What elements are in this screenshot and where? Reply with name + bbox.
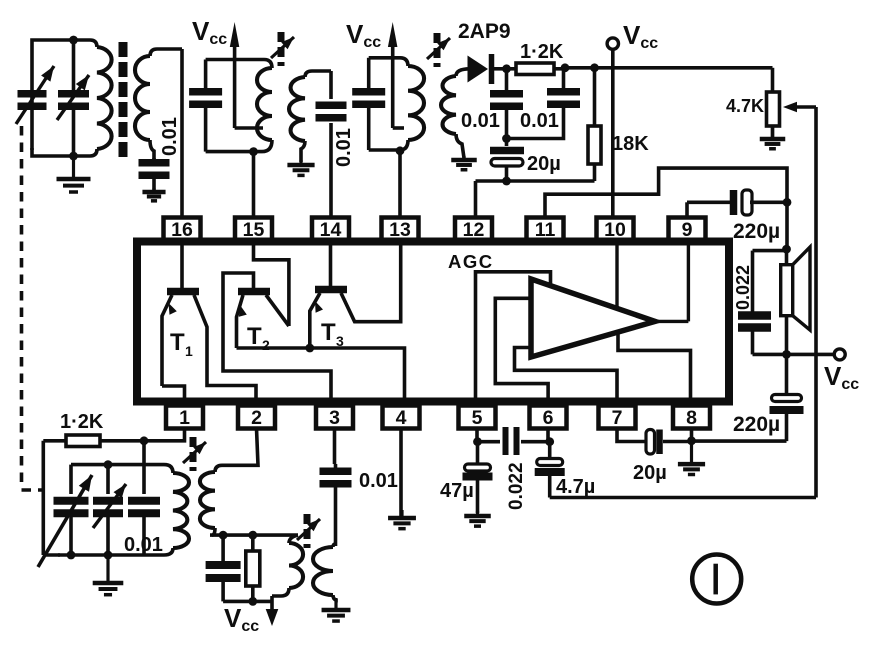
label 0.022 speaker: [733, 265, 753, 310]
node res branch: [248, 531, 257, 540]
wire rail right: [595, 66, 773, 70]
wire pin9 up: [687, 202, 730, 217]
label Vcc (pin15): [192, 16, 227, 48]
Vcc feed arrow (pin15): [230, 22, 240, 128]
variable capacitor C1a: [18, 90, 47, 110]
wire vcc arrow (osc): [266, 596, 279, 626]
pin 3: [316, 406, 353, 430]
label 1.2K osc: [60, 411, 104, 433]
node emitters: [305, 344, 314, 353]
wire cap to pin 14: [329, 123, 333, 218]
svg-text:0.01: 0.01: [124, 534, 163, 556]
core adjust (osc sec): [297, 514, 320, 548]
node 18K top: [590, 63, 599, 72]
capacitor 4.7u: [535, 442, 565, 498]
svg-text:T: T: [321, 319, 336, 346]
svg-text:20µ: 20µ: [633, 462, 667, 484]
wire pin7 down: [617, 429, 646, 442]
coil L6 detector: [441, 76, 464, 158]
wire to pin 13: [398, 151, 402, 218]
wire pin14 to T3: [329, 242, 333, 287]
wire T1 emitter to pin1: [162, 386, 185, 402]
wire tap (pin15): [235, 126, 263, 130]
node osc bot left: [67, 551, 76, 560]
arrow C2b: [93, 484, 126, 528]
node cap branch: [219, 531, 228, 540]
svg-text:2: 2: [262, 337, 270, 353]
svg-text:13: 13: [389, 219, 411, 241]
svg-text:T: T: [247, 323, 262, 350]
node tank15: [249, 147, 258, 156]
label 0.01 osc: [124, 534, 163, 556]
wire pin1 down: [144, 429, 185, 441]
wire C2b branch: [106, 465, 110, 555]
wire to speaker: [785, 202, 789, 249]
ground L7: [322, 598, 351, 621]
pin 7: [599, 406, 636, 430]
wire pin6 input: [495, 298, 548, 401]
svg-text:1: 1: [179, 407, 190, 429]
label 47u: [440, 480, 474, 502]
label 0.01 det A: [461, 110, 500, 132]
wire tank15 top: [206, 60, 272, 69]
core adjust (IF1): [271, 32, 294, 66]
svg-text:8: 8: [686, 407, 697, 429]
svg-text:T: T: [170, 329, 185, 356]
variable capacitor C2a: [54, 497, 89, 518]
wire 0.01 osc branch: [142, 441, 146, 555]
node detector out: [502, 64, 511, 73]
resistor R4 (pin2): [246, 535, 260, 601]
wire wiper to 4.7u: [550, 107, 816, 498]
coil L1 antenna primary: [32, 47, 112, 156]
wire L2 to pin16: [180, 49, 184, 218]
label Vcc osc: [224, 603, 259, 635]
wire pin11 step: [545, 168, 787, 217]
ground pin8: [678, 441, 705, 474]
node R1 right: [561, 63, 570, 72]
variable capacitor C2b: [93, 497, 123, 518]
node pin5: [473, 437, 482, 446]
speaker LS: [781, 247, 810, 354]
wire T2 base to pin3: [223, 273, 331, 402]
label 0.01 det B: [520, 110, 559, 132]
wire osc tank top: [71, 465, 173, 473]
node speaker bottom: [782, 350, 791, 359]
wire speaker top: [753, 251, 787, 312]
svg-text:10: 10: [604, 219, 626, 241]
label Vcc (top): [623, 20, 658, 52]
capacitor 47u: [463, 442, 493, 513]
svg-text:15: 15: [243, 219, 265, 241]
svg-text:0.01: 0.01: [359, 470, 398, 492]
Vcc feed arrow (pin13): [388, 22, 398, 128]
pot wiper arrow: [783, 102, 816, 112]
label 2AP9: [458, 20, 511, 43]
svg-text:11: 11: [535, 219, 556, 241]
svg-text:0.01: 0.01: [333, 128, 355, 167]
pin 5: [459, 406, 496, 430]
label 1.2K (det): [520, 41, 564, 63]
pin 14: [312, 218, 349, 242]
wire pin2 down: [222, 429, 258, 466]
wire C1b branch: [72, 40, 76, 156]
svg-text:4: 4: [396, 407, 407, 429]
coil L7 (pin3): [313, 547, 336, 600]
wire pin7 feedback: [515, 348, 618, 402]
capacitor 0.01 (L2): [139, 158, 170, 190]
label 18K: [612, 133, 649, 155]
svg-text:0.022: 0.022: [733, 265, 753, 310]
capacitor 220u top: [730, 190, 787, 215]
coil L3 IF1 primary: [206, 68, 272, 152]
wire osc mid line: [210, 533, 298, 537]
wire Vcc to pin 10: [611, 49, 615, 217]
node tank bottom: [69, 152, 78, 161]
wire L2 top lead: [150, 49, 182, 56]
svg-text:47µ: 47µ: [440, 480, 474, 502]
pin 13: [382, 218, 419, 242]
IC body (16-pin): [137, 242, 729, 402]
wire L6 top lead: [456, 69, 470, 76]
pin 12: [455, 218, 492, 242]
svg-text:18K: 18K: [612, 133, 649, 155]
svg-text:AGC: AGC: [448, 251, 494, 272]
svg-text:0.022: 0.022: [506, 462, 527, 510]
node osc top mid: [104, 460, 113, 469]
node AGC line: [502, 177, 511, 186]
resistor R3 4.7K: [767, 92, 780, 140]
wire L7 top lead: [333, 544, 336, 547]
wire tap (pin13): [393, 126, 404, 130]
svg-text:0.01: 0.01: [461, 110, 500, 132]
terminal Vcc top: [607, 38, 618, 49]
svg-text:4.7K: 4.7K: [726, 96, 764, 116]
ground L6: [451, 156, 477, 170]
wire to pin 15: [252, 152, 256, 218]
arrow C1b: [57, 75, 89, 120]
op-amp U1: [531, 279, 655, 357]
label T2: [247, 323, 270, 353]
svg-text:2: 2: [251, 407, 262, 429]
wire pin15 to T2 collector: [254, 242, 289, 327]
capacitor osc (pin2): [206, 535, 241, 601]
label T3: [321, 319, 344, 349]
wire pin3 down: [333, 429, 337, 465]
node pin1 junction: [140, 436, 149, 445]
arrow C1a: [16, 66, 54, 124]
svg-text:4.7µ: 4.7µ: [556, 476, 595, 498]
capacitor 0.022 speaker: [738, 311, 771, 354]
node tank13: [396, 146, 405, 155]
capacitor C5 (tank13): [352, 88, 385, 108]
capacitor 0.01 pin3: [320, 464, 352, 546]
wire amp tap to pin8: [618, 334, 691, 402]
pin 4: [383, 406, 420, 430]
svg-text:3: 3: [329, 407, 340, 429]
ground 4.7K: [760, 127, 786, 149]
pin 1: [166, 406, 203, 430]
pin 9: [669, 218, 706, 242]
label 4.7K: [726, 96, 764, 116]
capacitor C3 (tank15): [189, 88, 222, 108]
svg-text:0.01: 0.01: [159, 117, 181, 156]
coil L10 osc tank: [58, 473, 189, 555]
wire AGC to pin5: [476, 272, 551, 402]
svg-text:7: 7: [612, 407, 623, 429]
svg-text:3: 3: [336, 333, 344, 349]
label 220u bottom: [733, 413, 780, 436]
resistor R1 1.2K: [507, 63, 566, 75]
capacitor 220u bottom: [770, 354, 804, 441]
label T1: [170, 329, 193, 359]
resistor R2 18K: [588, 68, 601, 181]
wire pin10 to amp: [615, 242, 618, 308]
pin 15: [235, 218, 272, 242]
svg-text:1·2K: 1·2K: [60, 411, 104, 433]
pin 11: [527, 218, 564, 242]
svg-text:1·2K: 1·2K: [520, 41, 564, 63]
capacitor 0.01 det A: [490, 69, 523, 146]
label Vcc (pin13): [346, 19, 381, 51]
label AGC: [448, 251, 494, 272]
ground L4: [287, 160, 314, 175]
wire antenna tank top/left: [32, 40, 97, 150]
transistor T1: [162, 288, 256, 402]
diode D1 2AP9: [468, 54, 507, 84]
terminal Vcc right: [834, 349, 845, 360]
wire pin5 down: [475, 429, 479, 442]
node tank top: [69, 36, 78, 45]
pin 8: [673, 406, 710, 430]
wire tank15 left branch: [204, 60, 208, 152]
figure number 1: [692, 555, 741, 604]
transistor T2: [237, 288, 289, 348]
pin 16: [164, 218, 201, 242]
ground pin4: [388, 510, 416, 529]
wire rail to 18K: [565, 66, 595, 70]
wire det B to junction: [507, 104, 564, 139]
wire speaker bottom: [753, 353, 835, 357]
wire pin16 to T1: [180, 242, 184, 289]
label 0.01 (L2): [159, 117, 181, 156]
coil L4 IF1 secondary: [289, 77, 305, 162]
ferrite rod (dashed): [119, 42, 128, 157]
svg-text:20µ: 20µ: [527, 153, 561, 175]
svg-text:6: 6: [543, 407, 554, 429]
capacitor 0.022 (5-6): [478, 427, 550, 455]
core adjust (osc): [183, 437, 206, 471]
wire L9 top lead: [289, 535, 298, 543]
capacitor 20u pin7: [646, 430, 692, 455]
ground osc tank: [93, 555, 124, 595]
label 20u pin7: [633, 462, 667, 484]
label 220u top: [733, 220, 780, 243]
resistor R5 1.2K osc: [43, 435, 144, 447]
capacitor 20u det: [490, 147, 524, 181]
ground antenna tank: [57, 156, 91, 192]
arrow C2a: [38, 475, 92, 567]
coil L9 (osc prim): [272, 543, 303, 596]
label Vcc right: [824, 361, 859, 393]
wire osc left: [43, 441, 60, 555]
svg-text:2AP9: 2AP9: [458, 20, 511, 43]
wire AGC line: [476, 181, 595, 218]
coil L5 IF2: [369, 66, 424, 150]
transistor T3: [310, 242, 401, 349]
ground L2: [142, 188, 165, 201]
capacitor 0.01 (pin14): [316, 102, 347, 122]
ground 47u: [464, 511, 491, 526]
wire L8 top lead: [215, 465, 222, 472]
coil L8 (pin2): [200, 472, 215, 535]
label 0.01 (pin14): [333, 128, 355, 167]
wire pin8 down: [690, 429, 694, 442]
wire tank13 left branch: [367, 58, 371, 150]
wire osc vcc line: [223, 600, 272, 604]
node osc vcc: [248, 597, 257, 606]
gang link (dash-dot): [22, 126, 46, 490]
svg-text:220µ: 220µ: [733, 413, 780, 436]
pin 10: [597, 218, 634, 242]
node pin8 gnd: [687, 436, 696, 445]
label 4.7u: [556, 476, 595, 498]
svg-text:1: 1: [185, 343, 193, 359]
svg-text:220µ: 220µ: [733, 220, 780, 243]
svg-text:9: 9: [682, 219, 693, 241]
wire 220u to gnd line: [692, 439, 787, 443]
wire pin4 down: [399, 429, 403, 519]
variable capacitor C1b: [58, 90, 89, 110]
wire pin6 down: [546, 429, 550, 442]
pin 6: [530, 406, 567, 430]
core adjust (IF2): [427, 33, 450, 67]
wire amp out to pin9: [655, 242, 688, 322]
pin 2: [238, 406, 275, 430]
wire L4 cap lead: [329, 71, 333, 99]
node det filter: [502, 134, 511, 143]
node pin6: [545, 437, 554, 446]
svg-text:16: 16: [171, 219, 193, 241]
label 20u det: [527, 153, 561, 175]
capacitor 0.01 osc: [128, 497, 160, 518]
svg-text:5: 5: [472, 407, 483, 429]
capacitor 0.01 det B: [547, 68, 580, 108]
label 0.022 (5-6): [506, 462, 527, 510]
node speaker top: [782, 245, 791, 254]
label 0.01 pin3: [359, 470, 398, 492]
node 220u: [783, 198, 792, 207]
coil L2 antenna secondary: [135, 56, 154, 160]
wire L4 top lead: [305, 71, 331, 77]
wire rail corner: [771, 68, 775, 92]
wire emitter line: [237, 348, 405, 402]
svg-text:14: 14: [320, 219, 342, 241]
wire tank13 top: [369, 58, 408, 66]
svg-text:0.01: 0.01: [520, 110, 559, 132]
svg-text:12: 12: [463, 219, 485, 241]
node osc bot mid: [104, 551, 113, 560]
wire osc tank left branch: [69, 465, 73, 555]
